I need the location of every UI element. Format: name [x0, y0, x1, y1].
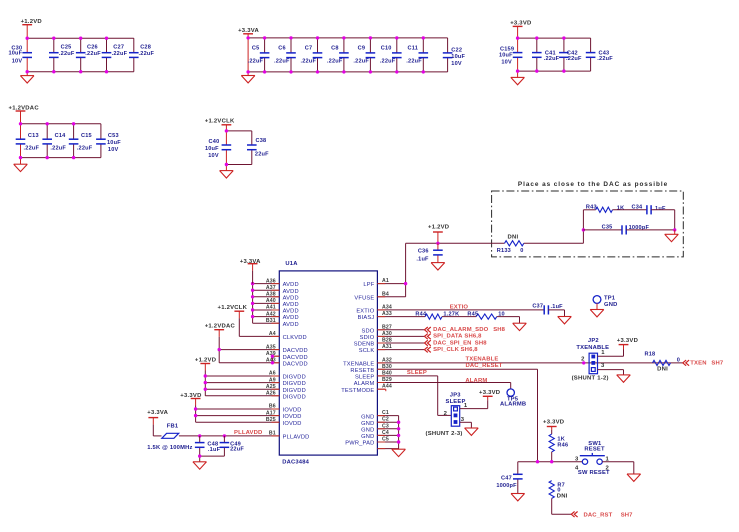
capacitor C36	[416, 249, 442, 263]
pin 2 JP3	[444, 411, 448, 417]
wire	[583, 229, 622, 231]
off-page TXEN	[683, 360, 724, 366]
svg-text:TESTMODE: TESTMODE	[341, 388, 374, 394]
capacitor C42	[559, 51, 582, 62]
junction	[218, 348, 221, 351]
wire	[582, 210, 584, 244]
svg-text:3: 3	[575, 456, 579, 462]
pin A36 AVDD	[253, 278, 299, 288]
pin A31 SCLK	[359, 344, 425, 354]
svg-text:.22uF: .22uF	[327, 58, 343, 64]
power flag +3.3VD	[543, 419, 564, 434]
op-amp U1A	[279, 261, 377, 455]
svg-text:2: 2	[606, 465, 610, 471]
svg-text:ALARM: ALARM	[354, 381, 375, 387]
svg-text:FB1: FB1	[167, 424, 179, 430]
pin 3 JP2	[598, 363, 624, 369]
wire	[317, 38, 319, 72]
wire	[518, 70, 591, 72]
junction	[72, 156, 75, 159]
wire	[226, 130, 251, 132]
wire	[590, 38, 592, 71]
svg-text:.1uF: .1uF	[208, 447, 221, 453]
wire	[548, 310, 564, 317]
pin C5 GND	[377, 437, 398, 443]
pin A34 EXTIO	[356, 304, 544, 314]
svg-text:0: 0	[520, 248, 523, 254]
junction	[342, 36, 345, 39]
wire	[248, 71, 448, 73]
svg-text:+1.2VD: +1.2VD	[21, 19, 42, 25]
svg-text:+3.3VA: +3.3VA	[147, 410, 168, 416]
svg-text:C14: C14	[55, 133, 67, 139]
junction	[673, 228, 676, 231]
junction	[397, 421, 400, 424]
junction	[105, 70, 108, 73]
svg-text:4: 4	[575, 465, 579, 471]
junction	[26, 37, 29, 40]
svg-text:SDO: SDO	[361, 328, 374, 334]
svg-text:RESET: RESET	[584, 446, 605, 452]
wire	[517, 38, 519, 71]
ground	[431, 263, 445, 270]
svg-text:DNI: DNI	[557, 493, 568, 499]
svg-text:RESETB: RESETB	[350, 368, 374, 374]
svg-text:+3.3VA: +3.3VA	[240, 259, 261, 265]
pin B25 IOVDD	[196, 417, 302, 427]
capacitor C22	[443, 47, 466, 67]
off-page SPI_DATA	[425, 334, 483, 340]
capacitor C53	[96, 133, 121, 153]
wire	[251, 131, 253, 165]
wire	[27, 37, 134, 39]
pin B27 SDO	[361, 324, 425, 334]
wire	[26, 38, 28, 71]
wire	[20, 124, 22, 158]
power flag +1.2VDAC	[205, 323, 236, 336]
svg-text:PLLAVDD: PLLAVDD	[283, 435, 310, 441]
pin B29 ALARM	[354, 377, 511, 387]
svg-text:C40: C40	[209, 139, 220, 145]
power flag +3.3VD	[617, 338, 638, 356]
pin B30 RESETB	[350, 364, 537, 374]
svg-text:+3.3VD: +3.3VD	[479, 390, 500, 396]
svg-text:+1.2VCLK: +1.2VCLK	[218, 305, 248, 311]
svg-text:.1uF: .1uF	[416, 257, 429, 263]
capacitor C11	[406, 45, 428, 64]
pin 2 JP2	[581, 356, 585, 362]
junction	[422, 70, 425, 73]
capacitor C38	[247, 138, 269, 157]
svg-text:AVDD: AVDD	[283, 322, 299, 328]
svg-text:DIGVDD: DIGVDD	[283, 375, 306, 381]
junction	[223, 434, 226, 437]
svg-text:IOVDD: IOVDD	[283, 408, 302, 414]
junction	[251, 315, 254, 318]
svg-text:.22uF: .22uF	[597, 56, 613, 62]
junction	[582, 361, 585, 364]
svg-text:C26: C26	[87, 45, 98, 51]
junction	[79, 37, 82, 40]
pin A35 DACVDD	[219, 344, 308, 354]
switch SW1	[578, 441, 610, 476]
test point TP5	[500, 389, 526, 408]
svg-text:C27: C27	[113, 45, 124, 51]
junction	[263, 70, 266, 73]
wire	[626, 229, 675, 231]
svg-text:JP3: JP3	[450, 392, 461, 398]
resistor R46	[549, 434, 568, 452]
ground	[193, 462, 207, 469]
svg-text:C34: C34	[632, 205, 644, 211]
svg-text:TXENABLE: TXENABLE	[466, 356, 499, 362]
svg-text:C53: C53	[108, 133, 119, 139]
wire	[398, 416, 400, 450]
ground	[220, 165, 234, 179]
svg-text:AVDD: AVDD	[283, 315, 299, 321]
wire	[264, 38, 266, 72]
note box	[492, 191, 684, 257]
pin A41 AVDD	[253, 305, 299, 315]
wire	[226, 164, 251, 166]
capacitor C40	[205, 139, 231, 159]
resistor R44	[415, 311, 459, 319]
pin 1 JP3	[460, 403, 488, 409]
power flag +3.3VA	[240, 259, 261, 284]
ground	[665, 230, 679, 242]
off-page DAC_RST	[571, 512, 633, 519]
svg-text:+3.3VA: +3.3VA	[238, 28, 259, 34]
power flag +3.3VD	[510, 21, 531, 38]
capacitor C25	[49, 45, 75, 58]
capacitor C13	[16, 133, 40, 152]
wire	[406, 242, 505, 244]
junction	[204, 381, 207, 384]
svg-text:R133: R133	[497, 248, 511, 254]
ground	[392, 449, 406, 456]
pin PWR_PAD	[345, 441, 398, 449]
svg-text:IOVDD: IOVDD	[283, 421, 302, 427]
svg-text:.22uF: .22uF	[380, 58, 396, 64]
wire	[100, 124, 102, 158]
svg-text:+1.2VDAC: +1.2VDAC	[9, 106, 40, 112]
svg-text:1K: 1K	[617, 205, 625, 211]
svg-text:C5: C5	[252, 45, 260, 51]
capacitor C9	[353, 45, 375, 64]
wire	[80, 38, 82, 71]
svg-text:LPF: LPF	[363, 282, 374, 288]
svg-text:R44: R44	[415, 311, 427, 317]
junction	[105, 37, 108, 40]
svg-text:22uF: 22uF	[230, 446, 244, 452]
svg-text:.22uF: .22uF	[274, 58, 290, 64]
junction	[516, 69, 519, 72]
junction	[19, 122, 22, 125]
ground	[558, 317, 572, 324]
junction	[46, 122, 49, 125]
wire	[204, 371, 206, 396]
wire	[510, 383, 512, 389]
wire	[518, 37, 591, 39]
wire	[537, 369, 539, 461]
svg-text:10V: 10V	[108, 147, 119, 153]
ground	[14, 158, 28, 172]
pin B40 SLEEP	[355, 370, 438, 380]
svg-text:DAC_RST: DAC_RST	[584, 512, 613, 518]
wire	[106, 38, 108, 71]
svg-text:JP2: JP2	[588, 338, 599, 344]
resistor R43	[586, 205, 624, 213]
power flag +1.2VDAC	[9, 106, 40, 124]
svg-text:SLEEP: SLEEP	[446, 399, 466, 405]
svg-text:.22uF: .22uF	[59, 51, 75, 57]
capacitor C37	[532, 303, 563, 314]
svg-text:22uF: 22uF	[255, 151, 269, 157]
capacitor C35	[602, 225, 650, 235]
pin A25 DIGVDD	[205, 384, 306, 394]
wire	[470, 422, 472, 428]
wire	[447, 38, 449, 72]
svg-text:1: 1	[601, 350, 605, 356]
wire	[552, 498, 572, 514]
svg-text:C9: C9	[358, 45, 366, 51]
wire	[536, 38, 538, 71]
wire	[218, 337, 220, 363]
pin A43 DACVDD	[219, 358, 308, 368]
junction	[316, 36, 319, 39]
svg-text:.22uF: .22uF	[353, 58, 369, 64]
pin 1 JP2	[598, 350, 624, 356]
wire	[497, 317, 520, 324]
wire	[27, 71, 134, 73]
capacitor C28	[129, 45, 154, 58]
svg-text:C28: C28	[140, 45, 151, 51]
ground	[20, 72, 34, 83]
svg-text:(SHUNT 1-2): (SHUNT 1-2)	[572, 375, 609, 381]
svg-text:SPI_CLK: SPI_CLK	[433, 347, 460, 353]
svg-text:SH7: SH7	[711, 360, 723, 366]
junction	[26, 70, 29, 73]
junction	[316, 70, 319, 73]
junction	[422, 36, 425, 39]
junction	[72, 122, 75, 125]
junction	[562, 36, 565, 39]
svg-text:.1uF: .1uF	[551, 304, 564, 310]
svg-text:10V: 10V	[501, 60, 512, 66]
junction	[404, 282, 407, 285]
svg-text:R18: R18	[645, 352, 656, 358]
svg-text:SH8: SH8	[493, 327, 505, 333]
pin A6 DIGVDD	[205, 371, 306, 381]
ferrite bead FB1	[162, 424, 179, 439]
ground	[627, 474, 641, 481]
junction	[289, 70, 292, 73]
junction	[395, 36, 398, 39]
junction	[535, 69, 538, 72]
pin B4 VFUSE	[354, 291, 405, 301]
capacitor C6	[274, 45, 296, 64]
junction	[46, 156, 49, 159]
svg-text:.22uF: .22uF	[566, 56, 582, 62]
ground	[465, 428, 479, 435]
svg-text:DAC_SPI_EN: DAC_SPI_EN	[433, 340, 472, 346]
svg-text:EXTIO: EXTIO	[450, 305, 469, 311]
capacitor C30	[8, 45, 32, 64]
junction	[246, 36, 249, 39]
svg-text:SDENB: SDENB	[354, 342, 375, 348]
svg-text:U1A: U1A	[285, 261, 298, 267]
pin 3 SW1	[575, 456, 579, 462]
junction	[562, 69, 565, 72]
svg-text:DAC_ALARM_SDO: DAC_ALARM_SDO	[433, 327, 489, 333]
ground	[511, 494, 525, 501]
power flag +3.3VA	[238, 28, 259, 38]
capacitor C5	[248, 45, 270, 64]
junction	[251, 282, 254, 285]
pin A42 AVDD	[253, 311, 299, 321]
svg-text:GND: GND	[604, 302, 617, 308]
junction	[251, 295, 254, 298]
junction	[52, 70, 55, 73]
off-page SPI_CLK	[425, 347, 479, 353]
label DAC3484	[282, 459, 309, 465]
svg-text:+3.3VD: +3.3VD	[617, 338, 638, 344]
svg-text:.22uF: .22uF	[85, 51, 101, 57]
off-page DAC_ALARM_SDO	[425, 327, 506, 333]
wire	[596, 303, 598, 309]
svg-text:(SHUNT 2-3): (SHUNT 2-3)	[426, 431, 463, 437]
pin A44 TESTMODE	[341, 384, 392, 394]
svg-text:DACVDD: DACVDD	[283, 348, 308, 354]
svg-text:PWR_PAD: PWR_PAD	[345, 441, 374, 447]
net SLEEP	[407, 370, 427, 376]
svg-text:3: 3	[601, 363, 605, 369]
pin B6 IOVDD	[196, 404, 302, 414]
wire	[651, 210, 675, 230]
capacitor C7	[300, 45, 322, 64]
pin A4 CLKVDD	[239, 331, 307, 341]
capacitor C47	[496, 474, 522, 489]
wire	[21, 123, 101, 125]
wire	[396, 38, 398, 72]
net TXENABLE	[466, 356, 499, 362]
junction	[194, 407, 197, 410]
svg-text:.22uF: .22uF	[112, 51, 128, 57]
pin A30 SDIO	[360, 331, 426, 341]
svg-text:1000pF: 1000pF	[496, 483, 517, 489]
ground	[513, 323, 527, 330]
svg-text:DAC3484: DAC3484	[282, 459, 309, 465]
ground	[511, 71, 525, 85]
pin 1 SW1	[606, 456, 610, 462]
pin C2 GND	[377, 417, 398, 423]
pin B31 AVDD	[253, 318, 299, 328]
net ALARM	[465, 378, 487, 384]
svg-text:AVDD: AVDD	[283, 302, 299, 308]
junction	[582, 228, 585, 231]
svg-text:SCLK: SCLK	[359, 348, 375, 354]
junction	[397, 440, 400, 443]
svg-text:DAC_RESET: DAC_RESET	[466, 363, 503, 369]
svg-text:SH7: SH7	[621, 512, 633, 518]
svg-text:BIASJ: BIASJ	[358, 315, 375, 321]
junction	[19, 156, 22, 159]
wire	[518, 461, 583, 463]
svg-text:0: 0	[677, 357, 680, 363]
value 1.5K @ 100MHz	[147, 445, 192, 451]
svg-text:C11: C11	[408, 45, 419, 51]
svg-text:+1.2VD: +1.2VD	[195, 358, 216, 364]
pin 2 SW1	[606, 465, 610, 471]
note text	[518, 181, 668, 188]
svg-text:R43: R43	[586, 205, 597, 211]
svg-text:.22uF: .22uF	[77, 146, 93, 152]
svg-text:.22uF: .22uF	[50, 146, 66, 152]
ground	[590, 310, 604, 317]
capacitor C159	[499, 47, 522, 66]
junction	[369, 36, 372, 39]
capacitor C34	[632, 205, 666, 215]
svg-text:SH6,8: SH6,8	[464, 334, 482, 340]
wire	[225, 131, 227, 165]
svg-text:PLLAVDD: PLLAVDD	[234, 430, 262, 436]
svg-text:C7: C7	[305, 45, 313, 51]
junction	[436, 242, 439, 245]
resistor R133	[497, 234, 524, 254]
pin A39 DACVDD	[266, 351, 308, 361]
svg-text:SDIO: SDIO	[360, 335, 375, 341]
svg-text:.22uF: .22uF	[248, 58, 264, 64]
capacitor C8	[327, 45, 349, 64]
capacitor C15	[69, 133, 93, 152]
wire	[438, 376, 452, 416]
wire	[524, 242, 584, 244]
svg-text:GND: GND	[361, 414, 374, 420]
svg-text:DNI: DNI	[657, 367, 668, 373]
svg-text:DNI: DNI	[508, 234, 519, 240]
wire	[133, 38, 135, 71]
wire	[551, 452, 553, 462]
label SHUNT 1-2	[572, 375, 609, 381]
pin A37 AVDD	[253, 285, 299, 295]
wire	[422, 38, 424, 72]
svg-text:C10: C10	[381, 45, 392, 51]
svg-text:VFUSE: VFUSE	[354, 295, 374, 301]
svg-text:C25: C25	[61, 45, 72, 51]
svg-text:CLKVDD: CLKVDD	[283, 335, 307, 341]
svg-text:TXEN: TXEN	[690, 360, 706, 366]
pin C4 GND	[377, 430, 398, 436]
junction	[225, 163, 228, 166]
svg-text:SLEEP: SLEEP	[355, 375, 374, 381]
junction	[225, 129, 228, 132]
power flag +1.2VD	[195, 358, 216, 371]
wire	[248, 37, 448, 39]
wire	[437, 243, 439, 262]
pin A33 BIASJ	[358, 311, 426, 321]
jumper JP3	[446, 392, 466, 426]
pin A17 IOVDD	[196, 410, 302, 420]
pin 3 JP3	[460, 417, 472, 423]
svg-text:AVDD: AVDD	[283, 282, 299, 288]
junction	[397, 434, 400, 437]
junction	[79, 70, 82, 73]
junction	[535, 36, 538, 39]
junction	[536, 460, 539, 463]
svg-text:10uF: 10uF	[499, 53, 513, 59]
svg-text:+1.2VDAC: +1.2VDAC	[205, 323, 236, 329]
power flag +1.2VD	[21, 19, 42, 38]
